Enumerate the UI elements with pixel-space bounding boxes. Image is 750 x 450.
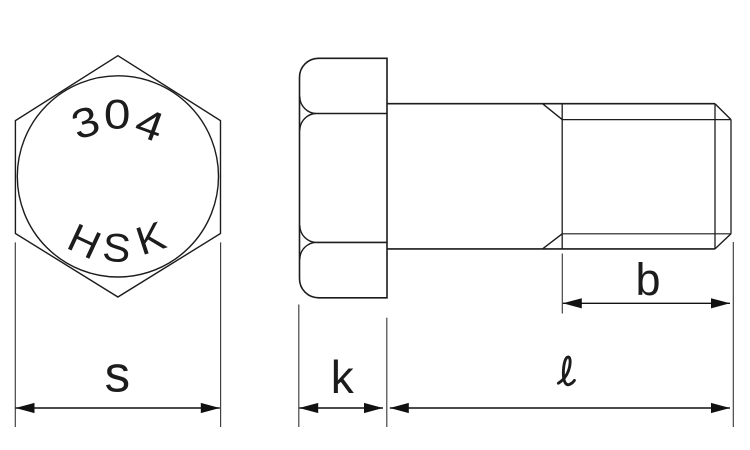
shank top line bbox=[387, 103, 715, 105]
extension line l right bbox=[732, 242, 734, 427]
svg-text:4: 4 bbox=[129, 100, 169, 152]
bolt head side view silhouette bbox=[300, 58, 388, 297]
thread runout diagonal top bbox=[543, 104, 563, 120]
chamfer boundary vertical bbox=[714, 104, 716, 249]
end chamfer bottom bbox=[715, 234, 731, 249]
thread root line top bbox=[562, 119, 731, 121]
dimension line b bbox=[563, 298, 730, 308]
stamp text HSK bbox=[61, 213, 171, 272]
dimension line k bbox=[299, 403, 383, 413]
facet pocket arcs upper bbox=[300, 97, 317, 131]
extension line k left bbox=[298, 305, 300, 428]
facet line upper bbox=[317, 113, 388, 115]
svg-text:b: b bbox=[635, 254, 660, 305]
end face vertical bbox=[730, 120, 732, 234]
extension line s right bbox=[220, 242, 222, 427]
facet line lower bbox=[317, 241, 388, 243]
svg-text:3: 3 bbox=[66, 97, 105, 148]
thread start vertical bbox=[561, 104, 563, 249]
thread root line bottom bbox=[562, 233, 731, 235]
inscribed chamfer circle bbox=[17, 76, 218, 277]
shank bottom line bbox=[387, 248, 715, 250]
extension line k/l shared bbox=[386, 318, 388, 427]
svg-text:0: 0 bbox=[104, 93, 131, 138]
end chamfer top bbox=[715, 104, 731, 120]
facet pocket arcs lower bbox=[300, 225, 317, 259]
dimension line l bbox=[390, 403, 730, 413]
stamp text 304 bbox=[66, 93, 170, 152]
svg-text:K: K bbox=[130, 213, 171, 264]
svg-text:S: S bbox=[101, 224, 133, 271]
hexagon head front view outline bbox=[15, 56, 220, 297]
dimension line s bbox=[16, 403, 220, 413]
extension line b left bbox=[561, 254, 563, 314]
svg-text:s: s bbox=[105, 345, 131, 402]
thread runout diagonal bottom bbox=[543, 234, 563, 249]
label l (script ell) bbox=[558, 357, 574, 385]
extension line s left bbox=[14, 242, 16, 427]
svg-text:k: k bbox=[331, 351, 355, 403]
